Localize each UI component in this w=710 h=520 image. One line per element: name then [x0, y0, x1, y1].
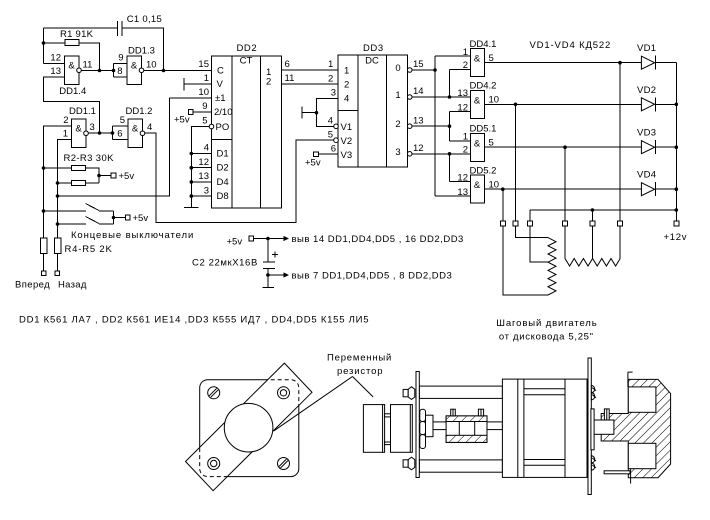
svg-text:PO: PO	[216, 122, 230, 133]
svg-text:C: C	[217, 66, 224, 77]
svg-text:D2: D2	[217, 163, 229, 174]
svg-text:13: 13	[50, 66, 61, 77]
svg-text:1: 1	[463, 132, 468, 143]
svg-text:5: 5	[489, 138, 494, 149]
svg-text:+5v: +5v	[133, 213, 149, 224]
svg-text:VD2: VD2	[637, 85, 656, 96]
svg-text:от дисковода 5,25": от дисковода 5,25"	[499, 332, 594, 343]
svg-text:15: 15	[413, 59, 424, 70]
svg-text:D1: D1	[217, 149, 229, 160]
svg-text:R1 91K: R1 91K	[60, 29, 94, 40]
svg-text:2: 2	[463, 145, 468, 156]
svg-text:1: 1	[395, 90, 400, 101]
svg-text:DD1.2: DD1.2	[126, 106, 153, 117]
svg-text:R2-R3 30K: R2-R3 30K	[64, 153, 115, 164]
svg-text:10: 10	[489, 95, 500, 106]
svg-text:12: 12	[413, 143, 424, 154]
svg-text:&: &	[68, 61, 75, 72]
svg-text:9: 9	[202, 101, 207, 112]
svg-text:&: &	[474, 180, 481, 191]
svg-text:12: 12	[50, 53, 61, 64]
svg-text:DD1.1: DD1.1	[69, 106, 96, 117]
svg-text:5: 5	[328, 129, 333, 140]
svg-text:DD1.4: DD1.4	[59, 86, 86, 97]
svg-text:DD3: DD3	[363, 43, 384, 54]
svg-text:10: 10	[489, 180, 500, 191]
svg-text:12: 12	[457, 172, 468, 183]
svg-text:V2: V2	[341, 136, 353, 147]
svg-text:1: 1	[344, 66, 349, 77]
svg-text:VD3: VD3	[637, 128, 656, 139]
svg-text:Вперед: Вперед	[15, 280, 50, 291]
svg-text:8: 8	[117, 66, 122, 77]
svg-text:2: 2	[63, 115, 68, 126]
svg-text:+5v: +5v	[305, 158, 321, 169]
svg-text:1: 1	[463, 47, 468, 58]
svg-text:5: 5	[120, 115, 125, 126]
svg-text:11: 11	[285, 73, 295, 84]
svg-text:DD4.2: DD4.2	[470, 81, 497, 92]
svg-text:&: &	[474, 95, 481, 106]
svg-text:0: 0	[395, 63, 400, 74]
svg-text:2/10: 2/10	[214, 107, 233, 118]
svg-text:12: 12	[457, 102, 468, 113]
svg-text:V3: V3	[341, 150, 353, 161]
svg-text:2: 2	[463, 60, 468, 71]
svg-text:13: 13	[457, 187, 468, 198]
svg-text:DD5.2: DD5.2	[470, 166, 497, 177]
svg-text:&: &	[132, 124, 139, 135]
svg-text:1: 1	[204, 73, 209, 84]
svg-text:DD1.3: DD1.3	[128, 46, 155, 57]
svg-text:13: 13	[198, 171, 209, 182]
svg-text:&: &	[75, 124, 82, 135]
svg-text:6: 6	[331, 143, 336, 154]
svg-text:+5v: +5v	[119, 171, 135, 182]
svg-text:C1 0,15: C1 0,15	[127, 14, 162, 25]
svg-text:4: 4	[344, 94, 349, 105]
svg-text:11: 11	[83, 60, 93, 71]
svg-text:V: V	[217, 79, 224, 90]
svg-text:D8: D8	[217, 191, 229, 202]
svg-text:10: 10	[146, 60, 157, 71]
svg-text:5: 5	[202, 116, 207, 127]
svg-text:4: 4	[328, 116, 333, 127]
svg-text:3: 3	[395, 147, 400, 158]
svg-text:VD4: VD4	[637, 170, 656, 181]
svg-text:выв 14 DD1,DD4,DD5 , 16 DD2,DD: выв 14 DD1,DD4,DD5 , 16 DD2,DD3	[292, 234, 464, 245]
svg-text:15: 15	[198, 59, 209, 70]
svg-text:±1: ±1	[215, 93, 226, 104]
svg-text:DD4.1: DD4.1	[470, 39, 497, 50]
svg-text:&: &	[474, 54, 481, 65]
svg-text:DC: DC	[365, 56, 379, 67]
svg-text:12: 12	[198, 157, 209, 168]
svg-text:4: 4	[147, 122, 152, 133]
svg-text:VD1: VD1	[637, 43, 656, 54]
svg-text:1: 1	[328, 59, 333, 70]
svg-text:D4: D4	[217, 177, 229, 188]
svg-text:14: 14	[413, 86, 424, 97]
svg-text:2: 2	[344, 80, 349, 91]
svg-text:9: 9	[118, 53, 123, 64]
svg-text:DD5.1: DD5.1	[470, 124, 497, 135]
svg-text:5: 5	[489, 53, 494, 64]
svg-text:Переменный: Переменный	[327, 353, 392, 364]
svg-text:1: 1	[63, 129, 68, 140]
svg-text:10: 10	[198, 87, 209, 98]
svg-text:Концевые выключатели: Концевые выключатели	[71, 230, 194, 241]
svg-text:DD1 К561 ЛА7 , DD2 К561 ИЕ14: DD1 К561 ЛА7 , DD2 К561 ИЕ14 ,DD3 К555 И…	[19, 315, 369, 326]
svg-text:+12v: +12v	[664, 232, 688, 243]
svg-text:2: 2	[266, 77, 271, 88]
svg-text:3: 3	[90, 122, 95, 133]
svg-text:DD2: DD2	[237, 43, 258, 54]
svg-text:6: 6	[285, 59, 290, 70]
svg-text:3: 3	[331, 88, 336, 99]
svg-text:13: 13	[457, 88, 468, 99]
svg-text:резистор: резистор	[337, 366, 383, 377]
svg-text:&: &	[474, 138, 481, 149]
svg-text:Назад: Назад	[58, 280, 87, 291]
svg-text:C2 22мкХ16В: C2 22мкХ16В	[192, 258, 258, 269]
svg-text:6: 6	[117, 129, 122, 140]
svg-text:CT: CT	[240, 56, 253, 67]
svg-text:3: 3	[204, 185, 209, 196]
svg-text:2: 2	[328, 73, 333, 84]
svg-text:+5v: +5v	[227, 237, 243, 248]
svg-text:R4-R5 2K: R4-R5 2K	[65, 244, 113, 255]
svg-text:V1: V1	[341, 122, 353, 133]
svg-text:13: 13	[413, 115, 424, 126]
svg-text:VD1-VD4 КД522: VD1-VD4 КД522	[530, 40, 612, 51]
svg-text:&: &	[131, 61, 138, 72]
svg-text:Шаговый двигатель: Шаговый двигатель	[496, 318, 597, 329]
svg-text:2: 2	[395, 119, 400, 130]
svg-text:+5v: +5v	[174, 115, 190, 126]
svg-text:4: 4	[204, 143, 209, 154]
svg-text:выв 7 DD1,DD4,DD5 , 8 DD2,DD3: выв 7 DD1,DD4,DD5 , 8 DD2,DD3	[292, 271, 453, 282]
